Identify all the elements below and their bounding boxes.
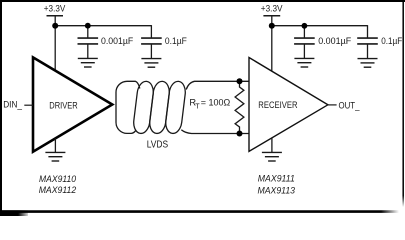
svg-text:DRIVER: DRIVER	[49, 100, 78, 111]
svg-text:LVDS: LVDS	[147, 139, 169, 150]
svg-text:DIN_: DIN_	[3, 99, 23, 109]
svg-text:OUT_: OUT_	[339, 100, 361, 110]
svg-text:MAX9112: MAX9112	[39, 185, 77, 196]
svg-text:+3.3V: +3.3V	[44, 3, 66, 13]
svg-text:0.1µF: 0.1µF	[165, 36, 187, 47]
svg-text:0.001µF: 0.001µF	[101, 36, 133, 47]
svg-text:T: T	[195, 101, 200, 110]
svg-text:= 100Ω: = 100Ω	[201, 98, 231, 108]
svg-text:+3.3V: +3.3V	[261, 4, 283, 14]
svg-text:RECEIVER: RECEIVER	[258, 100, 297, 111]
svg-text:MAX9110: MAX9110	[39, 174, 77, 185]
svg-text:0.1µF: 0.1µF	[381, 36, 402, 47]
svg-text:MAX9113: MAX9113	[258, 185, 296, 196]
svg-text:0.001µF: 0.001µF	[318, 36, 351, 47]
svg-text:MAX9111: MAX9111	[258, 173, 295, 184]
